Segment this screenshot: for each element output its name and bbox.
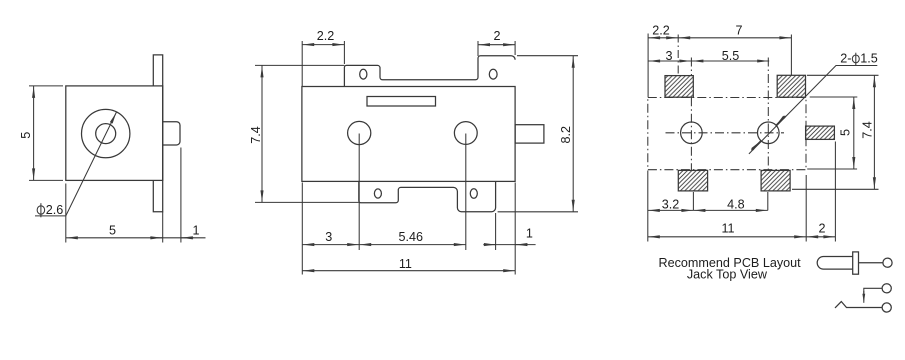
left hole centerline xyxy=(690,58,692,171)
dimension 8.2 extension lines xyxy=(498,56,578,212)
dimension 2.2 line xyxy=(302,44,344,46)
svg-text:1.5: 1.5 xyxy=(860,51,878,65)
plug symbol collar xyxy=(853,252,859,274)
label phi2.6 xyxy=(37,206,45,214)
schematic sleeve contact line xyxy=(835,302,882,308)
svg-text:4.8: 4.8 xyxy=(727,198,745,212)
barrel hole circle xyxy=(82,109,130,157)
schematic tip contact line xyxy=(864,288,882,296)
side-view body square xyxy=(66,86,163,180)
vertical dimension 5 extension lines xyxy=(29,86,63,180)
svg-text:2.2: 2.2 xyxy=(652,24,670,38)
svg-text:5.5: 5.5 xyxy=(722,49,740,63)
schematic tip contact arrow xyxy=(863,291,865,303)
svg-text:1: 1 xyxy=(526,226,533,240)
svg-text:5: 5 xyxy=(109,224,116,238)
bottom-left tab oval hole xyxy=(374,189,381,198)
bottom dimension 1 arrow xyxy=(181,237,194,239)
right hole circle xyxy=(758,122,780,144)
body edge extension lines bottom xyxy=(302,183,515,275)
svg-text:2.6: 2.6 xyxy=(46,203,64,217)
dimension 2 line xyxy=(478,44,515,46)
leader line phi2.6 xyxy=(35,112,117,216)
top-right pad xyxy=(777,75,805,97)
dimension 5 right line xyxy=(853,97,855,169)
plug symbol barrel xyxy=(817,257,853,270)
pin hole circle xyxy=(96,124,116,144)
svg-text:7: 7 xyxy=(735,24,742,38)
outline edge extension lines bottom xyxy=(648,142,836,242)
svg-text:2: 2 xyxy=(818,221,825,235)
leader lower arrow xyxy=(751,141,760,151)
svg-text:3: 3 xyxy=(665,49,672,63)
dimension 11 line xyxy=(302,270,515,272)
bottom dimension extension lines xyxy=(66,148,181,243)
mounting flange plate xyxy=(153,55,162,212)
dimension 7.4 right line xyxy=(873,75,875,189)
pcb outline dash-dot rectangle xyxy=(648,98,806,170)
dimension 8.2 line xyxy=(572,56,574,212)
svg-text:7.4: 7.4 xyxy=(860,121,874,139)
plug symbol lead xyxy=(859,262,883,264)
right hole centerline xyxy=(767,58,769,171)
dimension 4.8 line xyxy=(693,209,767,211)
dimension 3.2 line xyxy=(648,209,694,211)
svg-text:Jack Top View: Jack Top View xyxy=(687,267,768,281)
dimension 2.2 extension lines xyxy=(647,34,649,98)
dimension 5.5 line xyxy=(691,60,769,62)
dimension 7.4 right extension lines xyxy=(792,75,879,189)
svg-text:2-: 2- xyxy=(840,51,851,65)
dimension 3 line xyxy=(648,60,691,62)
svg-text:3: 3 xyxy=(325,230,332,244)
dimension 7.4 line xyxy=(261,65,263,202)
svg-text:7.4: 7.4 xyxy=(249,126,263,144)
left hole circle xyxy=(681,122,703,144)
dimension 5 right extension lines xyxy=(807,97,857,169)
svg-text:3.2: 3.2 xyxy=(662,198,680,212)
dimension 7 extension line xyxy=(790,35,792,76)
dimension 2.2 extension lines xyxy=(302,41,344,87)
leader 2-phi1.5 line xyxy=(749,66,877,154)
schematic bottom terminal circle xyxy=(882,303,891,312)
center pin stub xyxy=(163,122,180,145)
dimension 2 bottom line xyxy=(806,236,835,238)
plug symbol terminal circle xyxy=(883,258,892,267)
svg-text:1: 1 xyxy=(192,224,199,238)
bottom-right pad xyxy=(761,170,790,191)
leader upper arrow xyxy=(776,116,785,126)
bottom-left pad xyxy=(678,170,707,191)
top-left tab oval hole xyxy=(360,69,367,79)
svg-text:2: 2 xyxy=(493,29,500,43)
svg-text:8.2: 8.2 xyxy=(559,126,573,144)
top-view body rectangle xyxy=(302,87,515,182)
dimension 2 extension lines xyxy=(478,41,515,56)
dimension 7.4 extension lines xyxy=(255,65,359,202)
bottom-right tab oval hole xyxy=(470,189,477,198)
dimension 1 line xyxy=(483,244,535,246)
horizontal centerline xyxy=(666,132,785,134)
bottom tabs profile xyxy=(359,181,496,211)
svg-text:5.46: 5.46 xyxy=(399,230,424,244)
dimension 7 line xyxy=(678,37,791,39)
svg-text:5: 5 xyxy=(19,132,33,139)
svg-text:2.2: 2.2 xyxy=(317,29,335,43)
dimension 5.46 line xyxy=(359,244,466,246)
svg-text:11: 11 xyxy=(721,221,734,235)
bottom dimension 5 line xyxy=(66,237,206,239)
vertical dimension 5 line xyxy=(33,86,35,180)
svg-text:5: 5 xyxy=(839,129,853,136)
schematic top terminal circle xyxy=(882,284,891,293)
circle center extension lines xyxy=(359,134,466,251)
right pin hole circle xyxy=(454,122,477,145)
slot opening xyxy=(367,97,436,107)
top tabs profile xyxy=(344,56,515,87)
top-left pad xyxy=(665,76,693,98)
dimension 2.2 line xyxy=(648,37,678,39)
side pin protrusion xyxy=(515,125,544,143)
svg-text:11: 11 xyxy=(399,257,412,271)
right side pad xyxy=(806,126,835,139)
pad center extension lines bottom xyxy=(693,192,767,210)
top-right tab oval hole xyxy=(489,69,497,79)
dimension 11 line xyxy=(648,236,806,238)
dimension 3 line xyxy=(302,244,359,246)
left pin hole circle xyxy=(348,121,371,144)
